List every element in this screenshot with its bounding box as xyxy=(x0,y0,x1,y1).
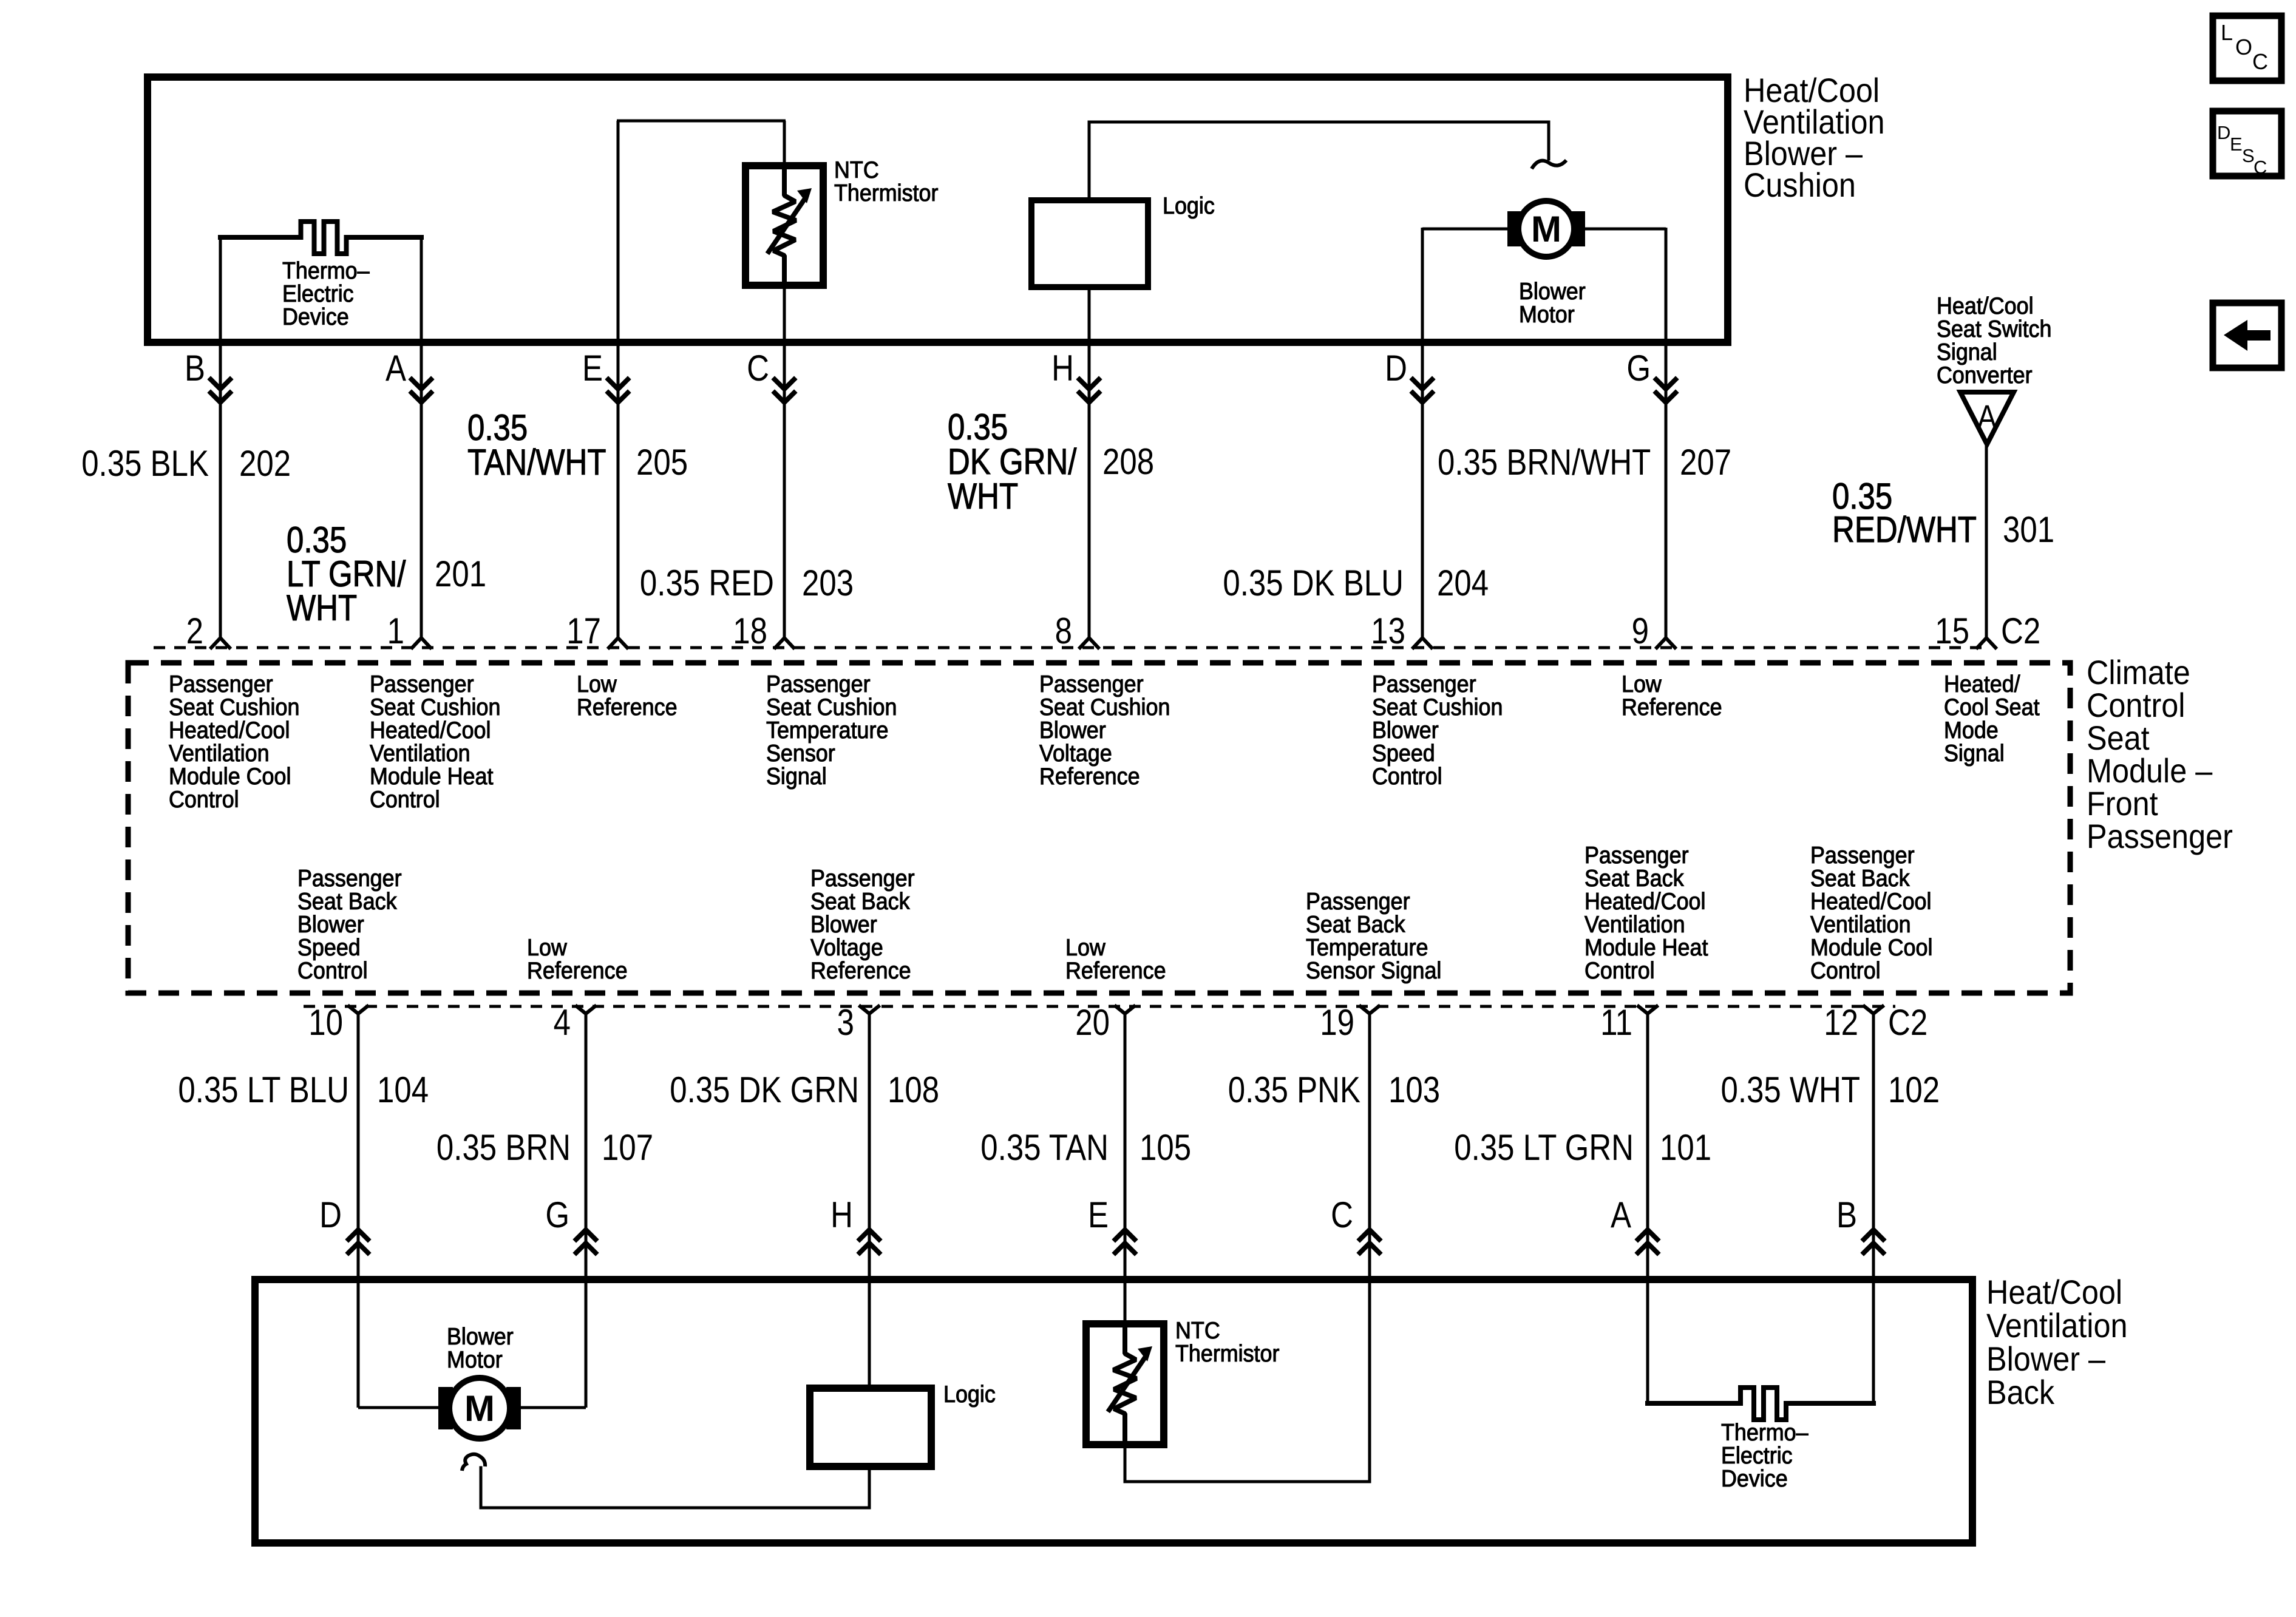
Climate Control Seat Module - Front Passenger box xyxy=(128,663,2070,993)
svg-text:104: 104 xyxy=(377,1070,429,1110)
svg-text:Back: Back xyxy=(1986,1374,2054,1412)
svg-text:Heat/Cool: Heat/Cool xyxy=(1986,1274,2122,1312)
wire pin 11 / A (0.35 LT GRN 101) xyxy=(1646,1014,1649,1403)
svg-text:208: 208 xyxy=(1102,441,1154,482)
triangle A (signal converter) xyxy=(1960,392,2014,444)
svg-text:19: 19 xyxy=(1320,1002,1354,1043)
wire pin 4 / G (0.35 BRN 107) xyxy=(585,1014,588,1408)
NTC thermistor (cushion) xyxy=(746,166,823,285)
svg-text:0.35 BRN: 0.35 BRN xyxy=(436,1127,571,1168)
svg-text:Control: Control xyxy=(1810,957,1881,984)
svg-text:0.35 DK GRN: 0.35 DK GRN xyxy=(670,1070,859,1110)
svg-text:Sensor Signal: Sensor Signal xyxy=(1306,957,1441,984)
svg-text:Device: Device xyxy=(1721,1465,1788,1492)
svg-text:0.35 PNK: 0.35 PNK xyxy=(1228,1070,1360,1110)
back arrow icon box xyxy=(2213,303,2281,368)
svg-text:Motor: Motor xyxy=(447,1346,503,1373)
svg-text:Reference: Reference xyxy=(1065,957,1166,984)
svg-text:15: 15 xyxy=(1935,611,1969,651)
motor brush curl and wire to logic xyxy=(462,1454,485,1471)
wire C into NTC xyxy=(783,121,786,164)
svg-text:0.35 BRN/WHT: 0.35 BRN/WHT xyxy=(1438,442,1651,483)
svg-text:C: C xyxy=(747,348,769,388)
svg-text:12: 12 xyxy=(1824,1002,1858,1043)
svg-text:B: B xyxy=(185,348,205,388)
thermo-electric device (back) xyxy=(1648,1388,1873,1420)
svg-text:C2: C2 xyxy=(1888,1002,1927,1043)
svg-text:Reference: Reference xyxy=(577,694,678,720)
svg-text:Reference: Reference xyxy=(527,957,628,984)
wire pin 10 / D (0.35 LT BLU 104) xyxy=(357,1014,360,1408)
wire pin 12 / B (0.35 WHT 102) xyxy=(1872,1014,1875,1403)
svg-text:3: 3 xyxy=(837,1002,854,1043)
svg-text:0.35 BLK: 0.35 BLK xyxy=(81,443,209,484)
svg-text:Module –: Module – xyxy=(2087,753,2213,790)
svg-text:Seat: Seat xyxy=(2087,720,2150,758)
svg-text:Climate: Climate xyxy=(2087,654,2190,692)
svg-text:101: 101 xyxy=(1660,1127,1711,1168)
svg-text:A: A xyxy=(1611,1195,1632,1235)
wire pin 20 / E (0.35 TAN 105) xyxy=(1124,1014,1127,1320)
svg-text:1: 1 xyxy=(387,611,404,651)
svg-text:C: C xyxy=(2252,49,2268,74)
svg-text:WHT: WHT xyxy=(287,588,357,628)
svg-text:8: 8 xyxy=(1055,611,1072,651)
svg-text:107: 107 xyxy=(602,1127,653,1168)
svg-text:0.35 LT BLU: 0.35 LT BLU xyxy=(178,1070,349,1110)
svg-text:D: D xyxy=(2217,122,2230,143)
wire C / pin 18 (0.35 RED 203) xyxy=(783,288,786,638)
svg-text:Thermistor: Thermistor xyxy=(834,180,938,206)
svg-text:Control: Control xyxy=(2087,687,2185,725)
svg-text:Control: Control xyxy=(297,957,368,984)
connector C2 bottom dashed line xyxy=(304,1005,1895,1008)
wire H / pin 8 (0.35 DK GRN/WHT 208) xyxy=(1088,290,1091,638)
svg-text:O: O xyxy=(2235,35,2252,59)
svg-text:Reference: Reference xyxy=(810,957,911,984)
wire pin 15 (0.35 RED/WHT 301) xyxy=(1985,444,1988,638)
svg-text:9: 9 xyxy=(1632,611,1649,651)
svg-text:Logic: Logic xyxy=(943,1381,996,1408)
LOC icon box xyxy=(2213,16,2281,81)
logic box (cushion) xyxy=(1031,200,1148,287)
svg-text:Thermistor: Thermistor xyxy=(1175,1340,1279,1367)
svg-text:H: H xyxy=(830,1195,853,1235)
svg-text:E: E xyxy=(582,348,603,388)
svg-text:D: D xyxy=(319,1195,342,1235)
svg-text:301: 301 xyxy=(2003,509,2054,550)
wire NTC to C (back) xyxy=(1125,1448,1370,1482)
svg-text:203: 203 xyxy=(802,563,854,603)
blower motor (cushion) xyxy=(1507,211,1524,246)
wire motor right to G xyxy=(1585,228,1666,231)
svg-text:0.35 WHT: 0.35 WHT xyxy=(1720,1070,1860,1110)
connector forks top xyxy=(211,638,229,648)
wire pin 19 / C (0.35 PNK 103) xyxy=(1368,1014,1371,1482)
svg-text:2: 2 xyxy=(186,611,203,651)
svg-text:E: E xyxy=(1088,1195,1109,1235)
svg-text:C: C xyxy=(2254,157,2267,178)
svg-text:Cushion: Cushion xyxy=(1744,167,1856,205)
svg-text:Control: Control xyxy=(1584,957,1655,984)
svg-text:0.35 LT GRN: 0.35 LT GRN xyxy=(1454,1127,1634,1168)
wire motor to G (back) xyxy=(518,1406,586,1409)
svg-text:Motor: Motor xyxy=(1519,301,1575,328)
svg-text:Ventilation: Ventilation xyxy=(1986,1307,2128,1345)
svg-text:A: A xyxy=(1977,398,1997,436)
svg-text:205: 205 xyxy=(636,442,688,483)
wire G / pin 9 (0.35 BRN/WHT 207) xyxy=(1665,228,1668,638)
Heat/Cool Ventilation Blower - Cushion box xyxy=(148,77,1728,342)
wire B / pin 2 (0.35 BLK 202) xyxy=(219,237,222,638)
svg-text:Blower –: Blower – xyxy=(1986,1341,2105,1378)
svg-text:G: G xyxy=(1626,348,1651,388)
svg-text:E: E xyxy=(2230,134,2243,155)
logic box (back) xyxy=(810,1388,931,1466)
svg-text:G: G xyxy=(545,1195,569,1235)
svg-text:207: 207 xyxy=(1680,442,1731,483)
svg-text:TAN/WHT: TAN/WHT xyxy=(467,442,606,483)
svg-text:102: 102 xyxy=(1888,1070,1940,1110)
wire direction chevrons (top) xyxy=(211,379,230,389)
svg-text:202: 202 xyxy=(239,443,291,484)
svg-text:105: 105 xyxy=(1140,1127,1191,1168)
Heat/Cool Ventilation Blower - Back box xyxy=(255,1280,1972,1543)
svg-text:H: H xyxy=(1051,348,1074,388)
svg-text:17: 17 xyxy=(566,611,601,651)
wire direction chevrons (bottom) xyxy=(348,1230,368,1239)
svg-text:204: 204 xyxy=(1437,563,1489,603)
wire E-C loop xyxy=(617,121,620,638)
wire D / pin 13 (0.35 DK BLU 204) xyxy=(1421,228,1424,638)
wire pin 3 / H (0.35 DK GRN 108) xyxy=(868,1014,871,1386)
wire D to motor (back) xyxy=(358,1406,441,1409)
wire A / pin 1 (0.35 LT GRN/WHT 201) xyxy=(420,237,423,638)
svg-text:Converter: Converter xyxy=(1937,362,2033,388)
svg-text:Logic: Logic xyxy=(1163,192,1215,219)
svg-text:201: 201 xyxy=(435,554,486,594)
svg-text:108: 108 xyxy=(888,1070,939,1110)
svg-text:C2: C2 xyxy=(2001,611,2040,651)
wire logic to motor (squiggle) xyxy=(1089,122,1549,200)
svg-text:0.35 DK BLU: 0.35 DK BLU xyxy=(1223,563,1404,603)
svg-text:Front: Front xyxy=(2087,785,2158,823)
svg-text:Signal: Signal xyxy=(766,763,827,790)
svg-text:11: 11 xyxy=(1600,1002,1632,1043)
svg-text:A: A xyxy=(385,348,407,388)
connector C2 top dashed line xyxy=(154,646,1986,649)
svg-text:103: 103 xyxy=(1388,1070,1440,1110)
svg-text:Control: Control xyxy=(169,786,239,813)
svg-text:C: C xyxy=(1331,1195,1353,1235)
wire motor left to D xyxy=(1422,228,1507,231)
svg-text:L: L xyxy=(2221,20,2233,45)
svg-text:WHT: WHT xyxy=(948,476,1018,517)
thermo-electric device (cushion) xyxy=(220,222,421,254)
blower motor (back) xyxy=(438,1387,453,1429)
svg-text:M: M xyxy=(464,1388,495,1429)
svg-text:0.35 TAN: 0.35 TAN xyxy=(980,1127,1109,1168)
svg-text:Passenger: Passenger xyxy=(2087,818,2233,856)
svg-text:Device: Device xyxy=(282,303,349,330)
svg-text:RED/WHT: RED/WHT xyxy=(1832,509,1977,550)
connector forks bottom xyxy=(349,1006,367,1014)
svg-text:S: S xyxy=(2242,145,2255,166)
svg-text:13: 13 xyxy=(1371,611,1405,651)
svg-text:Control: Control xyxy=(1372,763,1442,790)
svg-text:Signal: Signal xyxy=(1944,740,2005,767)
svg-text:0.35 RED: 0.35 RED xyxy=(640,563,774,603)
svg-text:20: 20 xyxy=(1075,1002,1110,1043)
svg-text:Control: Control xyxy=(370,786,440,813)
svg-text:D: D xyxy=(1385,348,1407,388)
svg-text:Reference: Reference xyxy=(1039,763,1140,790)
svg-text:18: 18 xyxy=(733,611,767,651)
svg-text:M: M xyxy=(1531,209,1561,249)
svg-text:B: B xyxy=(1836,1195,1857,1235)
DESC icon box xyxy=(2213,111,2281,176)
svg-text:10: 10 xyxy=(308,1002,343,1043)
svg-text:4: 4 xyxy=(554,1002,571,1043)
NTC thermistor (back) xyxy=(1086,1324,1164,1445)
svg-text:Reference: Reference xyxy=(1622,694,1722,720)
